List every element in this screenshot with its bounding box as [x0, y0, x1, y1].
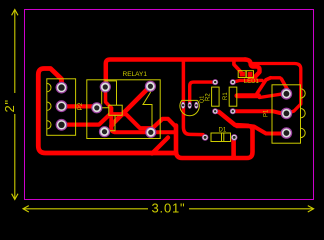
relay silk ML to coil	[97, 89, 109, 108]
pad R2.top	[212, 79, 218, 85]
wire bottom diagonal branch	[152, 138, 168, 154]
svg-text:LED1: LED1	[244, 79, 260, 85]
wire P2.mid to relay ML	[62, 106, 97, 107]
wire LED hook	[245, 60, 260, 80]
pad Q1-3	[194, 102, 198, 109]
pad P2-2	[56, 100, 68, 112]
pads	[56, 79, 293, 141]
wire relay TR diagonal	[111, 86, 150, 126]
wire junction to P1.bot	[250, 126, 286, 134]
pad R1.top	[230, 79, 236, 85]
relay silk coil to BL	[105, 115, 116, 132]
svg-text:P1: P1	[264, 109, 270, 117]
diode D1 outline	[211, 133, 231, 142]
svg-text:Q1: Q1	[200, 96, 206, 103]
wire long run y63.5 to right side of P1	[251, 64, 301, 113]
pad relay TR	[145, 81, 156, 92]
transistor Q1 outline	[180, 100, 199, 115]
svg-text:R1: R1	[223, 92, 229, 100]
pad P1-2	[281, 108, 293, 120]
wire knot horizontal B	[271, 76, 281, 79]
svg-text:RELAY1: RELAY1	[123, 71, 148, 78]
wire valley trace from P2.bot	[62, 114, 177, 128]
wire relay TL down	[106, 87, 112, 108]
pad R2.bot	[212, 108, 218, 114]
wire Q1.mid to R2.top	[190, 82, 216, 105]
dimension horizontal line	[23, 208, 148, 210]
pad P2-3	[56, 119, 68, 131]
wire shallow riser into P1.top	[260, 93, 287, 97]
LED1 smd pad fills	[240, 72, 253, 77]
wire net1 P2.top to bottom rail	[38, 69, 176, 154]
wire knot diagonal A	[257, 78, 271, 94]
silkscreen	[47, 71, 305, 144]
LED1 outline boxes	[238, 71, 246, 78]
relay coil rect	[109, 105, 122, 115]
pad P2-1	[56, 82, 68, 94]
wire R2.bot diagonal to junction	[215, 111, 248, 126]
pad R1.bot	[230, 108, 236, 114]
arrowhead up	[12, 10, 18, 16]
arrowhead left	[23, 206, 29, 212]
connector P1 outline	[272, 85, 301, 143]
connector P2 outline	[47, 79, 76, 136]
pad Q1-1	[181, 102, 185, 109]
svg-text:3.01": 3.01"	[152, 201, 186, 216]
resistor R2 outline	[212, 87, 220, 106]
board outline border	[25, 10, 314, 200]
wire Q1.left feed from top run	[183, 60, 203, 135]
pad relay BL	[99, 126, 110, 137]
arrowhead right	[308, 206, 314, 212]
pad relay TL	[100, 81, 111, 92]
pad D1.right	[231, 134, 238, 141]
pad D1.left	[202, 134, 209, 141]
wire relay BR horizontal	[111, 108, 176, 132]
svg-text:2": 2"	[2, 99, 17, 112]
relay silk armature	[143, 87, 152, 133]
pad relay BR	[145, 127, 156, 138]
wire branch to LED left pad	[234, 60, 242, 74]
relay RELAY1 outline	[87, 80, 160, 139]
svg-text:D1: D1	[219, 128, 227, 134]
wire U branch up to D1.right	[231, 137, 236, 157]
wire knot C spur	[237, 93, 259, 98]
silkscreen labels	[77, 71, 270, 134]
pad relay ML	[91, 102, 102, 113]
wire LED right pad stub	[248, 74, 252, 80]
connector P1 arcs	[301, 89, 306, 138]
pad P1-1	[281, 88, 293, 100]
dimension vertical line	[12, 10, 314, 213]
svg-text:R2: R2	[206, 93, 212, 101]
wire top run from relay TL	[106, 60, 245, 88]
resistor R1 outline	[229, 87, 237, 106]
wire vertical riser x176 and U loop	[176, 126, 253, 159]
connector P2 arcs	[47, 83, 51, 129]
wire knot diagonal C into P1.top	[282, 79, 289, 91]
arrowhead down	[12, 194, 18, 200]
pad P1-3	[281, 127, 293, 139]
wire R1.bot to P1.mid	[233, 111, 287, 113]
wire R1.top rail under LED	[233, 80, 262, 82]
pad Q1-2	[188, 102, 192, 109]
svg-text:P2: P2	[77, 102, 84, 110]
relay silk TL to coil	[105, 81, 117, 105]
